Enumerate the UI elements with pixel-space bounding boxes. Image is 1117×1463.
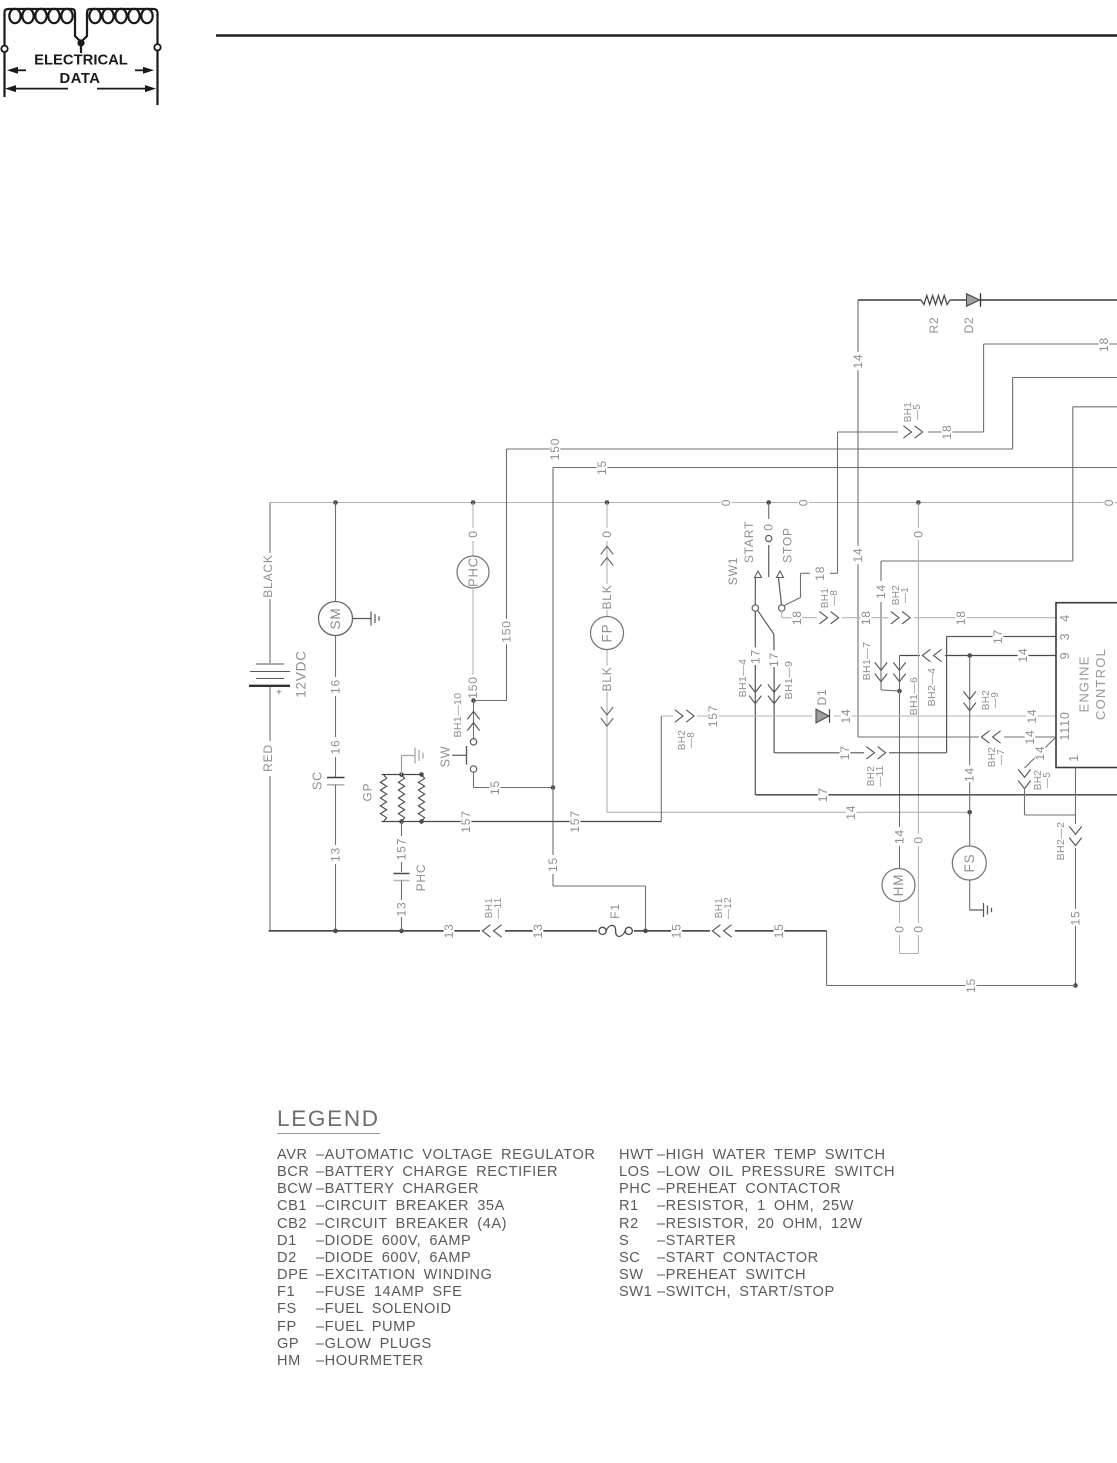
svg-text:BH1—4: BH1—4 bbox=[737, 659, 749, 698]
svg-text:9: 9 bbox=[1058, 652, 1072, 660]
diode D2 bbox=[950, 299, 966, 301]
svg-text:0: 0 bbox=[719, 499, 733, 506]
svg-text:—5: —5 bbox=[1042, 772, 1053, 788]
svg-text:FS: FS bbox=[962, 854, 977, 873]
node F1 junction bbox=[643, 929, 648, 934]
svg-text:SW: SW bbox=[439, 746, 453, 768]
wire 157 D1 horizontal bbox=[661, 715, 1056, 717]
svg-text:18: 18 bbox=[940, 425, 954, 440]
svg-text:18: 18 bbox=[790, 610, 804, 625]
svg-text:START: START bbox=[742, 521, 756, 563]
svg-text:BH1—9: BH1—9 bbox=[783, 661, 795, 700]
wire FP branch from bus bbox=[605, 500, 610, 505]
preheat contactor coil PHC bbox=[457, 556, 489, 588]
electrical data logo coil left winding bbox=[5, 9, 73, 16]
svg-text:SC: SC bbox=[311, 771, 325, 790]
svg-text:ELECTRICAL: ELECTRICAL bbox=[34, 53, 128, 69]
svg-text:15: 15 bbox=[488, 780, 502, 795]
connector chevron below FP bbox=[601, 707, 613, 715]
connector BH1-5 bbox=[903, 426, 911, 438]
svg-text:157: 157 bbox=[568, 810, 582, 832]
svg-text:157: 157 bbox=[395, 838, 409, 860]
wire 15 SW to riser bbox=[473, 772, 475, 787]
connector BH1-10 bbox=[473, 701, 475, 739]
wire BLACK label bbox=[263, 556, 274, 596]
svg-text:14: 14 bbox=[1033, 746, 1047, 761]
svg-text:13: 13 bbox=[531, 923, 545, 938]
svg-text:17: 17 bbox=[767, 652, 781, 667]
wire PHC contact branch bbox=[401, 822, 403, 837]
svg-text:18: 18 bbox=[1097, 337, 1111, 352]
ground at FS bbox=[969, 880, 971, 910]
svg-text:BLK: BLK bbox=[600, 584, 614, 609]
svg-text:RED: RED bbox=[261, 744, 275, 772]
resistor R2 wire bbox=[858, 299, 921, 301]
svg-text:—7: —7 bbox=[996, 749, 1007, 765]
fuse F1 bbox=[597, 924, 634, 937]
wire 14 FP to FS junction bbox=[607, 811, 970, 813]
battery 12VDC bbox=[256, 663, 284, 665]
connector BH2-8 bbox=[673, 709, 697, 722]
wire 17 BH1-4 branch bbox=[754, 611, 756, 648]
node 15 riser junction bbox=[551, 785, 556, 790]
glow plugs GP bbox=[382, 774, 424, 776]
ground above GP bbox=[401, 756, 403, 775]
connector BH1-9 bbox=[768, 684, 780, 692]
svg-text:15: 15 bbox=[546, 857, 560, 872]
svg-text:1: 1 bbox=[1067, 754, 1081, 762]
svg-text:—9: —9 bbox=[990, 692, 1001, 708]
svg-text:0: 0 bbox=[600, 530, 614, 537]
switch SW1 start/stop bbox=[766, 500, 771, 505]
svg-text:17: 17 bbox=[816, 787, 830, 802]
connector BH1-12 bbox=[710, 924, 735, 937]
connector BH1-8 bbox=[817, 611, 842, 624]
svg-text:0: 0 bbox=[911, 836, 925, 843]
svg-text:BLK: BLK bbox=[600, 666, 614, 691]
svg-text:157: 157 bbox=[706, 705, 720, 727]
wire BLK below FP bbox=[602, 666, 613, 692]
svg-text:PHC: PHC bbox=[414, 864, 428, 892]
svg-text:14: 14 bbox=[851, 354, 865, 369]
svg-text:—5: —5 bbox=[912, 404, 923, 420]
wire 15 bottom horizontal bbox=[827, 985, 1076, 987]
wire 0 gray riser bbox=[916, 500, 921, 505]
contact START bbox=[755, 571, 762, 578]
logo center tap bbox=[72, 9, 90, 53]
svg-text:—11: —11 bbox=[875, 765, 886, 786]
svg-text:16: 16 bbox=[329, 740, 343, 755]
wire 17 BH1-9 branch bbox=[773, 634, 775, 652]
svg-text:13: 13 bbox=[442, 923, 456, 938]
wire riser to BH1-5 bbox=[837, 432, 839, 573]
node bottom bus left bbox=[333, 929, 338, 934]
preheat contactor contact PHC bbox=[394, 873, 410, 875]
svg-text:ENGINE: ENGINE bbox=[1077, 655, 1092, 712]
wire 14 R2 riser bbox=[857, 300, 859, 737]
logo right terminal bbox=[156, 14, 158, 44]
svg-text:14: 14 bbox=[874, 584, 888, 599]
wire 150 PHC to node bbox=[472, 588, 474, 675]
wire 17 to pin3 bbox=[946, 637, 948, 753]
svg-text:SM: SM bbox=[328, 608, 343, 630]
svg-text:0: 0 bbox=[1102, 499, 1116, 506]
svg-text:17: 17 bbox=[838, 745, 852, 760]
svg-text:—11: —11 bbox=[493, 897, 504, 918]
node FS junction bbox=[967, 810, 972, 815]
svg-text:14: 14 bbox=[893, 829, 907, 844]
svg-text:15: 15 bbox=[595, 460, 609, 475]
wire BH1-7 to node bbox=[881, 690, 900, 691]
node pin9 FS junction bbox=[967, 653, 972, 658]
connector BH2-9 bbox=[969, 656, 971, 768]
svg-text:0: 0 bbox=[893, 925, 907, 932]
node battery black top corner bbox=[269, 503, 271, 554]
svg-text:SW1: SW1 bbox=[726, 557, 740, 585]
svg-text:1110: 1110 bbox=[1058, 711, 1072, 740]
wire HM riser bbox=[899, 691, 901, 827]
svg-text:14: 14 bbox=[1016, 648, 1030, 663]
connector BH1-11 bbox=[480, 924, 505, 937]
svg-text:PHC: PHC bbox=[466, 557, 481, 587]
svg-text:15: 15 bbox=[670, 923, 684, 938]
connector BH2-1 bbox=[888, 611, 914, 624]
svg-text:BH2—4: BH2—4 bbox=[926, 668, 938, 707]
wire 15 horizontal top bbox=[553, 467, 1117, 469]
node BH1-6 junction bbox=[897, 689, 902, 694]
svg-text:4: 4 bbox=[1058, 614, 1072, 622]
logo left terminal bbox=[3, 14, 5, 46]
wire 150 corner to vertical riser bbox=[474, 700, 507, 702]
bottom bus wire 13 bbox=[269, 930, 827, 932]
svg-text:18: 18 bbox=[954, 610, 968, 625]
svg-text:R2: R2 bbox=[927, 317, 941, 334]
svg-text:13: 13 bbox=[329, 847, 343, 862]
svg-text:BH1—7: BH1—7 bbox=[861, 642, 873, 681]
wire PHC branch from bus bbox=[471, 500, 476, 505]
svg-text:150: 150 bbox=[466, 676, 480, 698]
svg-text:0: 0 bbox=[762, 523, 776, 530]
svg-text:DATA: DATA bbox=[60, 71, 101, 87]
svg-text:0: 0 bbox=[797, 499, 811, 506]
diode D1 bbox=[812, 708, 834, 723]
connector BH2-7 bbox=[979, 731, 1004, 744]
svg-text:GP: GP bbox=[361, 783, 375, 802]
wire 14 to BH1-7 riser bbox=[881, 560, 1073, 562]
resistor R2 bbox=[921, 296, 950, 305]
connector BH1-6 bbox=[893, 662, 905, 670]
connector BH2-4 bbox=[920, 649, 945, 662]
wire RED lead bbox=[269, 687, 271, 741]
wire 18 BH1-8 horizontal bbox=[781, 611, 783, 618]
legend column 2 bbox=[619, 1147, 895, 1301]
svg-text:—8: —8 bbox=[829, 590, 840, 606]
logo dimension arrows bbox=[10, 69, 26, 71]
node PHC junction bbox=[471, 698, 476, 703]
wire 18 STOP to BH1-5 riser bbox=[784, 598, 801, 606]
svg-text:17: 17 bbox=[748, 649, 762, 664]
top horizontal rule bbox=[216, 34, 1117, 36]
svg-text:14: 14 bbox=[963, 767, 977, 782]
svg-text:15: 15 bbox=[772, 923, 786, 938]
svg-text:17: 17 bbox=[991, 629, 1005, 644]
starter motor SM bbox=[319, 602, 353, 636]
svg-text:D2: D2 bbox=[962, 317, 976, 334]
wire 18 to top right bbox=[983, 344, 985, 432]
preheat switch SW bbox=[470, 739, 476, 745]
wire SM branch from bus bbox=[333, 500, 338, 505]
svg-text:14: 14 bbox=[844, 805, 858, 820]
svg-text:157: 157 bbox=[459, 810, 473, 832]
node 15 bottom junction bbox=[1073, 983, 1078, 988]
svg-text:16: 16 bbox=[329, 679, 343, 694]
svg-text:BH1—10: BH1—10 bbox=[452, 692, 464, 737]
hourmeter HM bbox=[882, 869, 915, 902]
connector BH2-11 bbox=[864, 746, 889, 759]
svg-text:FP: FP bbox=[600, 624, 615, 643]
connector BH2-5 bbox=[1025, 737, 1057, 768]
wire 0 below HM bbox=[899, 902, 901, 924]
wire pin1 riser BH2-2 bbox=[1075, 768, 1077, 825]
engine control box bbox=[1056, 603, 1117, 768]
electrical data logo coil right winding bbox=[90, 9, 158, 16]
legend column 1 bbox=[277, 1147, 595, 1370]
legend title bbox=[277, 1106, 380, 1134]
svg-text:CONTROL: CONTROL bbox=[1093, 648, 1108, 720]
wire 157 GP to BH2-8 riser bbox=[382, 821, 662, 823]
wire 17 BH2-11 horizontal bbox=[774, 752, 947, 754]
connector BH1-4 bbox=[749, 684, 761, 692]
svg-text:0: 0 bbox=[911, 530, 925, 537]
svg-text:14: 14 bbox=[851, 548, 865, 563]
svg-text:—1: —1 bbox=[900, 587, 911, 603]
svg-text:0: 0 bbox=[911, 925, 925, 932]
wire 17 long horizontal bbox=[755, 794, 1117, 796]
fuel pump FP bbox=[590, 616, 624, 650]
svg-text:15: 15 bbox=[1069, 911, 1083, 926]
switch blade bbox=[758, 610, 774, 634]
svg-text:—12: —12 bbox=[723, 897, 734, 919]
wire 13 SC to bottom bus bbox=[335, 785, 337, 845]
svg-text:+: + bbox=[276, 687, 282, 699]
svg-text:14: 14 bbox=[1025, 709, 1039, 724]
contact STOP bbox=[777, 571, 784, 578]
svg-text:3: 3 bbox=[1058, 633, 1072, 641]
svg-text:F1: F1 bbox=[608, 903, 622, 919]
svg-text:STOP: STOP bbox=[781, 527, 795, 563]
svg-text:15: 15 bbox=[964, 978, 978, 993]
wire 0 bus top horizontal bbox=[270, 502, 1117, 504]
svg-text:14: 14 bbox=[839, 709, 853, 724]
svg-text:12VDC: 12VDC bbox=[294, 650, 309, 698]
svg-text:—8: —8 bbox=[686, 732, 697, 748]
ground at SM bbox=[353, 618, 372, 620]
svg-text:0: 0 bbox=[466, 530, 480, 537]
wire 14 pin9 horizontal bbox=[900, 655, 1057, 657]
wire 15 vertical riser bbox=[552, 468, 554, 788]
svg-text:BLACK: BLACK bbox=[261, 554, 275, 597]
svg-text:D1: D1 bbox=[815, 689, 829, 706]
connector chevron above FP bbox=[601, 546, 613, 554]
connector BH1-7 bbox=[875, 662, 887, 670]
start contactor SC bbox=[327, 777, 345, 779]
svg-text:18: 18 bbox=[813, 566, 827, 581]
wire 14 pin11 horizontal bbox=[858, 736, 1056, 738]
svg-text:150: 150 bbox=[548, 438, 562, 460]
svg-text:HM: HM bbox=[891, 874, 906, 897]
fuel solenoid FS bbox=[969, 812, 971, 846]
svg-text:BH2—2: BH2—2 bbox=[1055, 822, 1067, 861]
svg-text:14: 14 bbox=[1023, 730, 1037, 745]
wire 150 horizontal bbox=[507, 448, 1013, 450]
wire 18 BH1-5 horizontal bbox=[838, 431, 984, 433]
wire top right corner bbox=[1073, 406, 1117, 408]
svg-text:18: 18 bbox=[859, 610, 873, 625]
wire 16 SM to SC bbox=[335, 636, 337, 678]
svg-text:13: 13 bbox=[395, 902, 409, 917]
svg-text:150: 150 bbox=[500, 620, 514, 642]
